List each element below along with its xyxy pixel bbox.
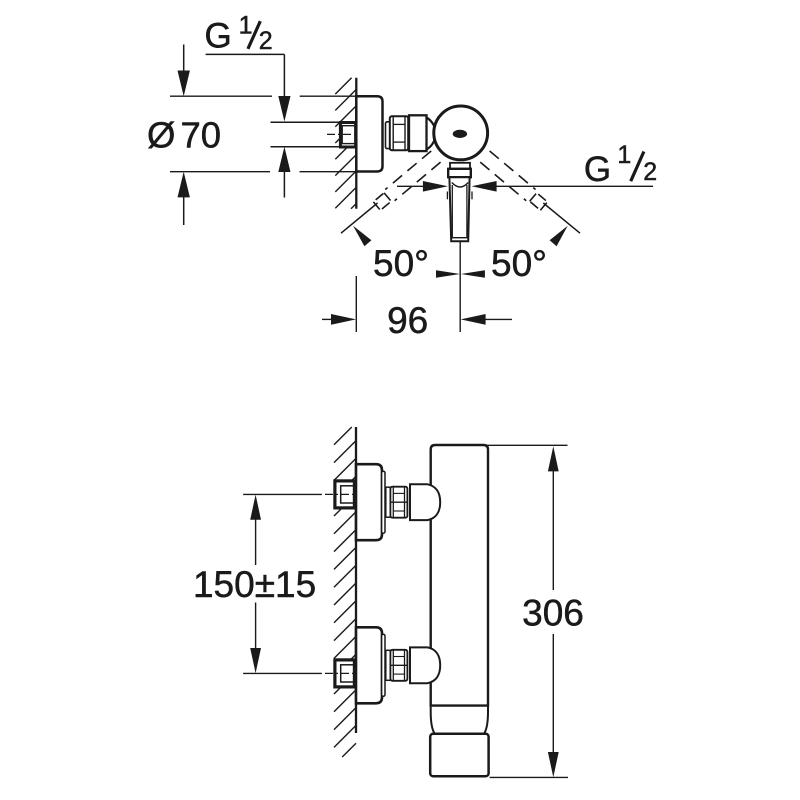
- svg-text:G: G: [205, 17, 232, 56]
- svg-text:96: 96: [387, 300, 428, 341]
- svg-text:50°: 50°: [373, 243, 429, 284]
- svg-text:1: 1: [239, 11, 253, 39]
- svg-text:G: G: [584, 150, 611, 189]
- svg-text:2: 2: [643, 158, 657, 186]
- svg-text:Ø: Ø: [147, 115, 175, 156]
- svg-text:50°: 50°: [491, 243, 547, 284]
- svg-text:150±15: 150±15: [193, 564, 316, 605]
- svg-text:70: 70: [181, 115, 222, 156]
- svg-text:306: 306: [522, 592, 584, 633]
- svg-text:1: 1: [617, 141, 631, 169]
- svg-text:2: 2: [259, 27, 273, 55]
